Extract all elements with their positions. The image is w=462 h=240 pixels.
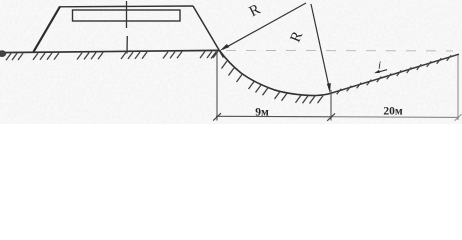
embankment right slope (with overshoot past ground) (193, 6, 224, 58)
hatching along rising slope (337, 55, 452, 94)
roadbed rectangle on embankment (73, 10, 181, 21)
ground hatching group 3 (77, 52, 103, 59)
embankment top edge (59, 5, 193, 8)
dimension tick right (455, 114, 462, 120)
ground hatching group 4 (121, 52, 147, 59)
centerline of embankment (lower segment crossing ground) (126, 36, 128, 54)
ground hatching group 1 (6, 53, 23, 60)
arrowhead of R1 at slope toe (220, 44, 230, 51)
ink blob at left end of ground line (0, 50, 6, 57)
dimension line (9м span) (216, 115, 331, 118)
ground hatching group 6 (200, 51, 218, 58)
extension line below slope toe (216, 53, 218, 121)
radius line R1 (223, 3, 307, 49)
ground line (left natural ground surface) (0, 50, 219, 52)
dimension line (20м span) (331, 116, 459, 119)
dimension tick middle (327, 113, 335, 120)
rising cut slope to the right (331, 54, 460, 93)
arrowhead of R2 at curve end (327, 83, 331, 93)
dimension tick left (213, 113, 221, 120)
hatch tick at X-crossing below slope toe (211, 52, 217, 59)
radius line R2 (311, 4, 330, 90)
scan noise overlay (0, 0, 462, 124)
dashed ground-level reference line (226, 49, 453, 52)
hatching along ditch curve (222, 61, 324, 104)
extension line at right end of slope (457, 55, 459, 120)
ditch curve (radius R cuvette) (220, 51, 331, 96)
embankment left slope (34, 7, 61, 52)
extension line below curve end (330, 90, 332, 121)
ground hatching group 2 (33, 53, 59, 60)
centerline of embankment (upper segment) (126, 1, 128, 28)
ground hatching group 5 (163, 52, 182, 59)
gradient direction arrow (378, 70, 388, 73)
